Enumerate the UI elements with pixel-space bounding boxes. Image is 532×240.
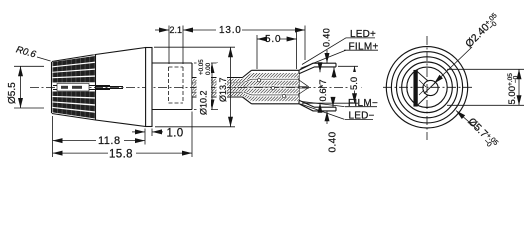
crimp dot 1 — [257, 79, 260, 82]
svg-text:13.0: 13.0 — [219, 25, 242, 36]
label phi13.7 — [217, 63, 229, 103]
knurl band 7 — [53, 103, 96, 112]
dimension 0.40 bottom — [332, 97, 334, 107]
leader phi5.7 — [456, 111, 477, 130]
svg-text:1.0: 1.0 — [167, 128, 184, 140]
dimension 5.0 top — [257, 38, 263, 40]
dimension phi10.2 line — [211, 63, 213, 110]
dimension 13.0 right extension — [304, 26, 306, 61]
dimension phi5.5 line — [20, 66, 22, 108]
dimension phi5.5 extension lines — [14, 65, 44, 67]
ring 4 — [402, 62, 453, 113]
svg-text:Ø10.2: Ø10.2 — [199, 90, 209, 115]
svg-text:LED−: LED− — [349, 111, 375, 122]
dimension 1.0 — [132, 131, 145, 133]
crimp dot 3 — [282, 94, 285, 97]
dimension 2.1 extensions — [168, 26, 170, 65]
knurl centre inset box — [57, 84, 89, 92]
svg-text:15.8: 15.8 — [109, 148, 133, 160]
leader FILM+ — [301, 50, 347, 68]
key hatch — [419, 80, 426, 95]
leader LED- — [301, 104, 345, 120]
centerline left view — [30, 87, 362, 89]
crimp dot 2 — [271, 86, 274, 89]
bundle strip 4 — [192, 93, 243, 96]
hidden bore dashed — [169, 67, 184, 103]
svg-text:Ø5.7+.05−0: Ø5.7+.05−0 — [464, 116, 500, 152]
dimension 5.0 vertical — [354, 66, 356, 103]
wire bundle outline — [192, 78, 243, 98]
knurl band 1 — [53, 56, 96, 66]
svg-text:Ø2.40+.05−0: Ø2.40+.05−0 — [463, 12, 503, 52]
knurl band 5 — [53, 92, 96, 98]
leader LED+ — [302, 38, 346, 65]
svg-text:5.0: 5.0 — [349, 77, 360, 90]
front view vertical centerline — [426, 36, 428, 140]
tip face — [51, 62, 53, 113]
svg-text:FILM−: FILM− — [348, 98, 378, 109]
film outline — [252, 70, 300, 104]
svg-text:Ø13.7: Ø13.7 — [218, 77, 228, 102]
svg-text:11.8: 11.8 — [98, 135, 121, 147]
front view horizontal centerline — [383, 86, 473, 88]
ring 1 — [386, 47, 467, 128]
dimension 11.8 extensions — [52, 116, 54, 157]
bundle strip 1 — [192, 79, 243, 82]
svg-text:Ø5.5: Ø5.5 — [7, 82, 18, 104]
dimension 5.0 top extensions — [256, 35, 258, 69]
film strip 4 — [243, 93, 300, 101]
leader phi2.40 — [434, 47, 472, 84]
dimension 5.00 line — [518, 69, 520, 105]
svg-text:FILM+: FILM+ — [349, 41, 379, 52]
rim disc — [146, 48, 152, 127]
dimension phi13.7 line — [230, 47, 232, 127]
knurl band 4 — [53, 77, 96, 83]
smooth cone outline — [96, 48, 146, 127]
svg-text:0.40: 0.40 — [322, 28, 332, 47]
dimension phi13.7 stubs — [154, 46, 235, 48]
rear cylinder — [152, 63, 192, 110]
dimension phi10.2 stubs — [194, 62, 218, 64]
svg-text:0.00: 0.00 — [205, 62, 212, 75]
svg-text:0.6*7: 0.6*7 — [318, 79, 329, 101]
knurl band 2 — [53, 63, 96, 72]
film strip 3 — [243, 88, 300, 93]
svg-text:2.1: 2.1 — [170, 25, 183, 35]
key bar — [414, 71, 417, 107]
knurl band 8 — [53, 108, 96, 119]
ring 3 — [397, 57, 458, 118]
knurl band 3 — [53, 70, 96, 77]
film strip 2 — [243, 81, 300, 87]
key connectors — [417, 72, 436, 106]
bundle separators — [192, 83, 243, 92]
dimension 0.6*7 — [319, 63, 321, 72]
leader FILM- — [302, 102, 345, 107]
cone outline — [52, 54, 96, 121]
dimension 15.8 right extension — [191, 112, 193, 158]
flare to film — [243, 70, 252, 104]
svg-text:R0.6: R0.6 — [15, 44, 38, 60]
svg-text:5.0: 5.0 — [265, 34, 281, 45]
center circle — [423, 80, 438, 95]
dimension 1.0 extensions — [151, 129, 153, 137]
knurl band 6 — [53, 97, 96, 104]
knurl centre lines — [53, 86, 123, 90]
svg-text:0.40: 0.40 — [328, 131, 339, 152]
label phi10.2 — [197, 59, 213, 116]
film separators — [244, 79, 300, 95]
bundle strip 3 — [192, 88, 243, 91]
dimension 5.0 vertical extensions — [338, 65, 358, 67]
ring 2 — [391, 52, 462, 123]
middle traces — [299, 80, 309, 94]
dimension 5.00 extensions — [447, 68, 524, 70]
dimension 2.1 — [155, 29, 169, 31]
film strip 1 — [243, 73, 300, 82]
svg-text:5.00+.05−0: 5.00+.05−0 — [507, 73, 520, 105]
top lead — [299, 63, 336, 74]
leader R0.6 — [37, 57, 51, 61]
bundle strip 2 — [192, 84, 243, 87]
ring 5 — [407, 67, 447, 107]
svg-text:LED+: LED+ — [350, 29, 376, 40]
dimension 15.8 — [53, 152, 109, 154]
dimension 13.0 — [183, 29, 216, 31]
bottom lead — [299, 100, 336, 111]
dimension 11.8 — [53, 140, 97, 142]
svg-text:+0.05: +0.05 — [198, 59, 205, 75]
